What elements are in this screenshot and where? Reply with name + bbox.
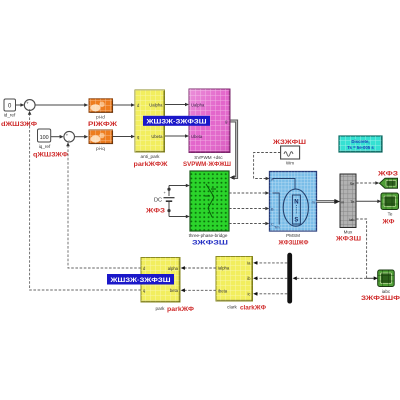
watermark banner bottom (blue) <box>107 274 174 285</box>
svg-text:ЗЖФЗШ: ЗЖФЗШ <box>192 240 228 247</box>
svg-text:Ubeta: Ubeta <box>191 134 203 139</box>
svg-text:SVPWM +dsc: SVPWM +dsc <box>194 155 223 160</box>
svg-text:anti_park: anti_park <box>141 154 161 159</box>
wire Mux Te to Te scope <box>356 200 381 204</box>
svg-text:ЖФЗШ: ЖФЗШ <box>335 236 361 243</box>
wire demux to clark ia <box>253 261 287 265</box>
svg-text:ibeta: ibeta <box>218 288 228 293</box>
svg-text:ic: ic <box>247 291 250 296</box>
svg-text:100: 100 <box>40 135 49 141</box>
svg-text:PIЖФЖ: PIЖФЖ <box>88 121 118 128</box>
PMSM block <box>270 172 317 232</box>
anti_park block <box>135 90 165 152</box>
three-phase-bridge block <box>190 171 229 231</box>
svg-text:Ts = 5e-005 s: Ts = 5e-005 s <box>347 145 374 150</box>
wire clark ibeta to park beta <box>181 288 216 292</box>
wire SVPWM g to bridge pulses (thick) <box>230 121 237 180</box>
svg-text:park: park <box>156 306 166 311</box>
svg-text:+: + <box>66 132 69 137</box>
watermark banner top (blue) <box>143 116 210 126</box>
svg-text:parkЖФ: parkЖФ <box>167 306 195 313</box>
SVPWM block <box>189 89 230 153</box>
svg-text:SVPWM·ЖФЖШ: SVPWM·ЖФЖШ <box>183 161 231 168</box>
powergui block <box>339 136 382 152</box>
svg-text:qЖШЗЖФ: qЖШЗЖФ <box>33 152 69 159</box>
wire demux to clark ib <box>253 276 287 280</box>
wire bridge C to PMSM C <box>229 222 269 226</box>
wire anti_park Ubeta to SVPWM Ubeta <box>165 134 190 138</box>
sum S2 <box>64 131 75 144</box>
svg-text:ЖШЗЖ·ЗЖФЗШ: ЖШЗЖ·ЗЖФЗШ <box>109 278 170 284</box>
wire demux to clark ic <box>253 292 287 296</box>
svg-text:Mux: Mux <box>344 230 353 235</box>
scope electrical angle <box>380 178 398 188</box>
wire feedback d: park d out to sum2 bottom <box>66 142 141 268</box>
svg-text:Ualpha: Ualpha <box>191 102 205 107</box>
svg-text:ЖЗЖФШ: ЖЗЖФШ <box>272 139 306 146</box>
svg-text:parkЖФЖ: parkЖФЖ <box>134 161 168 168</box>
wire pi-iq to anti_park q <box>112 135 136 139</box>
svg-text:Discrete,: Discrete, <box>351 139 369 144</box>
PI current controller pi-id <box>89 99 113 113</box>
svg-text:pi-id: pi-id <box>96 115 105 120</box>
svg-text:ialpha: ialpha <box>218 265 230 270</box>
svg-text:pi-iq: pi-iq <box>96 146 105 151</box>
wire anti_park Ualpha to SVPWM Ualpha <box>165 103 190 107</box>
svg-text:Ubeta: Ubeta <box>151 134 163 139</box>
wire Mux Se to angle scope (dashed) <box>356 181 379 185</box>
svg-text:ЖФЗ: ЖФЗ <box>377 171 399 178</box>
svg-text:Wm: Wm <box>286 161 294 166</box>
svg-text:+: + <box>164 190 167 195</box>
svg-text:N: N <box>294 200 298 206</box>
DC source battery <box>164 186 175 217</box>
svg-text:beta: beta <box>170 288 179 293</box>
Mux block <box>340 174 356 228</box>
wire iabc line to demux (points left) <box>293 276 367 280</box>
scope Te <box>381 193 399 210</box>
PI current controller pi-iq <box>89 130 113 144</box>
wire Mux iabc down to iabc bus line <box>356 219 367 278</box>
svg-text:Ualpha: Ualpha <box>149 103 163 108</box>
svg-text:three-phase-bridge: three-phase-bridge <box>189 233 228 238</box>
svg-text:PMSM: PMSM <box>286 233 300 238</box>
svg-text:iabc: iabc <box>382 289 391 294</box>
svg-text:clark: clark <box>227 305 237 310</box>
svg-text:dЖШЗЖФ: dЖШЗЖФ <box>1 121 38 128</box>
svg-text:Tm: Tm <box>274 226 279 230</box>
sum S1 <box>24 100 35 113</box>
svg-text:ЖШЗЖ·ЗЖФЗШ: ЖШЗЖ·ЗЖФЗШ <box>145 119 206 125</box>
svg-text:w: w <box>271 177 274 181</box>
wire feedback q: park q out to sum1 bottom <box>28 111 141 290</box>
svg-text:ЖФЗШЖФ: ЖФЗШЖФ <box>278 240 310 247</box>
wire clark ialpha to park alpha <box>181 266 216 270</box>
constant id_ref value 0 <box>4 99 16 111</box>
svg-text:ЖФЗ: ЖФЗ <box>145 208 165 215</box>
wire const100 to sum2 <box>51 135 64 139</box>
svg-text:DC: DC <box>154 197 162 203</box>
wire Wm to PMSM w <box>254 153 281 181</box>
wire const0 to sum1 <box>15 103 24 107</box>
svg-text:iab: iab <box>349 217 355 222</box>
wire sum1 to pi-id <box>35 103 88 107</box>
wire sum2 to pi-iq <box>75 135 88 139</box>
svg-text:iq_ref: iq_ref <box>39 144 51 149</box>
wire DC- to bridge <box>169 215 190 219</box>
svg-text:Se: Se <box>350 181 356 186</box>
svg-text:m: m <box>312 200 315 204</box>
wire iabc line to iabc scope <box>367 276 378 280</box>
svg-text:id_ref: id_ref <box>4 113 16 118</box>
wire bridge A to PMSM A <box>229 191 269 195</box>
wire bridge B to PMSM B <box>229 207 269 211</box>
svg-text:ЖФ: ЖФ <box>381 219 395 226</box>
svg-text:Te: Te <box>388 212 393 217</box>
source block Wm <box>281 146 300 159</box>
wire pi-id to anti_park d <box>112 103 136 107</box>
svg-text:alpha: alpha <box>168 266 179 271</box>
svg-text:m: m <box>341 200 344 204</box>
clark block <box>216 257 253 302</box>
scope iabc <box>378 270 395 287</box>
svg-text:ЗЖФЗШФ: ЗЖФЗШФ <box>361 295 400 302</box>
svg-text:clarkЖФ: clarkЖФ <box>240 305 267 312</box>
svg-text:+: + <box>26 101 29 106</box>
demux bar <box>287 253 292 304</box>
constant iq_ref value 100 <box>38 129 51 142</box>
wire PMSM m to Mux (thick) <box>317 199 341 204</box>
wire DC+ to bridge <box>169 184 190 188</box>
svg-text:S: S <box>294 218 298 224</box>
park block <box>141 258 180 303</box>
